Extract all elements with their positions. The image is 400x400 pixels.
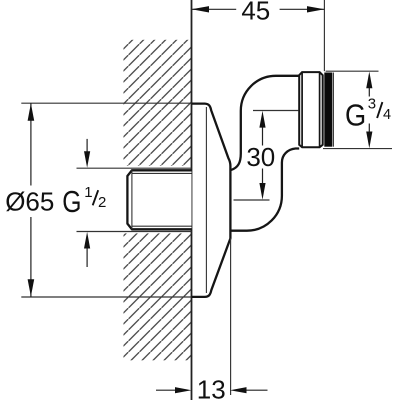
thread root lines bbox=[132, 172, 192, 174]
thread chamfer edge bbox=[131, 170, 133, 229]
flange (escutcheon) outline bbox=[192, 104, 231, 297]
wall hatching upper bbox=[124, 40, 192, 166]
dim O65: dimension line bbox=[30, 103, 32, 186]
dim G3/4: reference lines bbox=[326, 70, 379, 72]
pipe inner (right/bottom) edge bbox=[231, 149, 299, 231]
dim G3/4: arrows bbox=[366, 72, 372, 89]
dim 30: reference lines bbox=[253, 110, 299, 112]
svg-text:4: 4 bbox=[383, 107, 391, 123]
dim 45: arrows bbox=[192, 6, 210, 12]
dim G1/2: arrows bbox=[86, 139, 88, 152]
dim G1/2: reference lines bbox=[77, 167, 192, 169]
dim 13: extension line bbox=[230, 238, 232, 395]
flange silhouette line bbox=[205, 107, 207, 293]
dim 13: dimension line + arrows bbox=[156, 389, 176, 391]
pipe outer (left/top) edge bbox=[231, 76, 300, 170]
dim 45: dimension line bbox=[192, 8, 237, 10]
svg-text:2: 2 bbox=[98, 194, 106, 211]
svg-text:45: 45 bbox=[241, 0, 270, 26]
gasket (black seal) bbox=[324, 73, 332, 147]
svg-text:Ø65: Ø65 bbox=[5, 186, 54, 216]
dim O65: arrows bbox=[28, 103, 35, 120]
svg-text:G: G bbox=[345, 98, 366, 132]
dim 45: extension line right bbox=[323, 0, 325, 71]
svg-text:13: 13 bbox=[197, 375, 226, 400]
svg-text:G: G bbox=[62, 185, 81, 219]
dim O65: reference lines bbox=[21, 102, 191, 104]
collar chamfer lines bbox=[301, 72, 303, 147]
wall face line bbox=[191, 0, 193, 400]
svg-text:3: 3 bbox=[368, 96, 376, 113]
dim 30: arrows bbox=[259, 111, 265, 128]
G3/4 collar bbox=[299, 72, 323, 147]
svg-text:1: 1 bbox=[84, 184, 92, 201]
wall hatching lower bbox=[124, 233, 192, 360]
G1/2 male thread into wall bbox=[127, 170, 191, 229]
svg-text:30: 30 bbox=[246, 142, 275, 172]
